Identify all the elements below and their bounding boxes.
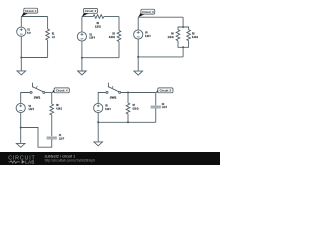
svg-text:5.10 V: 5.10 V (105, 107, 111, 111)
resistor R1 (46, 29, 50, 40)
label C2 value (162, 102, 167, 109)
node circuit2 junction (81, 57, 83, 59)
svg-text:3.19 Ω: 3.19 Ω (192, 35, 199, 39)
wire circuit4 left lower (20, 113, 22, 128)
resistor R6 (50, 104, 54, 115)
wire circuit2 right upper (118, 17, 120, 31)
wire circuit4 left top (21, 93, 30, 104)
svg-text:3.18 Ω: 3.18 Ω (109, 35, 116, 39)
voltage source V1 (17, 27, 26, 36)
node circuit3 top junction (182, 26, 184, 28)
wire circuit1 right upper (47, 17, 49, 30)
ground circuit3 (134, 57, 143, 75)
svg-text:1.10 F: 1.10 F (162, 105, 167, 109)
wire circuit1 left lower (20, 36, 22, 57)
wire circuit4 top right (45, 92, 52, 94)
wire circuit4 mid (51, 115, 53, 136)
svg-text:Circuit_4: Circuit_4 (56, 89, 68, 93)
wire circuit5 right lower (155, 108, 157, 122)
ground circuit5 (94, 122, 103, 146)
svg-text:Circuit_1: Circuit_1 (25, 9, 37, 13)
logo CircuitLab (8, 156, 35, 165)
resistor R3 (117, 31, 121, 42)
svg-text:http://circuitlab.com/c/7ab628: http://circuitlab.com/c/7ab628hdp9 (45, 159, 95, 163)
node circuit3 bottom junction (182, 46, 184, 48)
resistor R5 (187, 30, 191, 41)
svg-text:SW1: SW1 (34, 96, 41, 100)
capacitor C2 (151, 105, 161, 108)
ground circuit2 (78, 58, 87, 75)
ground circuit4 (16, 128, 25, 148)
svg-text:Circuit_2: Circuit_2 (85, 9, 97, 13)
wire circuit2 left lower (81, 41, 83, 58)
node circuit5 ground junction (97, 121, 99, 123)
wire circuit3 bottom bar (178, 41, 189, 48)
voltage source V2 (77, 32, 86, 41)
voltage source V5 (94, 103, 103, 112)
label C1 value (59, 133, 64, 140)
svg-text:V1: V1 (27, 28, 30, 32)
wire circuit4 below cap (21, 128, 52, 148)
wire circuit4 right upper (51, 93, 53, 105)
label R5 value (192, 32, 199, 39)
svg-text:2.18 Ω: 2.18 Ω (168, 35, 175, 39)
wire circuit1 bottom (21, 57, 47, 59)
svg-text:SW2: SW2 (110, 96, 117, 100)
label V4 value (29, 104, 35, 111)
switch SW2 (106, 83, 121, 94)
switch SW1 (30, 83, 45, 94)
wire circuit1 left upper (20, 17, 22, 28)
wire circuit2 right lower (118, 42, 120, 58)
footer bar (0, 152, 220, 165)
node circuit5 top junction (127, 92, 129, 94)
flag Circuit_5 (156, 88, 173, 93)
wire circuit3 right down (182, 47, 184, 57)
capacitor C1 (47, 136, 57, 139)
label R3 value (109, 32, 116, 39)
resistor R2 (93, 15, 104, 19)
wire circuit3 bottom (138, 56, 183, 58)
wire circuit5 bottom (98, 121, 156, 123)
wire circuit2 bottom (82, 57, 119, 59)
label R6 value (56, 103, 63, 110)
svg-text:4.18 Ω: 4.18 Ω (56, 106, 63, 110)
wire circuit2 top right (104, 16, 119, 18)
resistor R7 (126, 103, 130, 114)
svg-text:5.18 V: 5.18 V (89, 36, 95, 40)
voltage source V3 (134, 30, 143, 39)
svg-text:R2: R2 (97, 21, 100, 25)
svg-text:2.18 Ω: 2.18 Ω (95, 25, 102, 29)
wire circuit3 top (138, 16, 183, 18)
wire circuit5 top right (121, 92, 156, 94)
wire circuit1 top (21, 16, 47, 18)
wire circuit1 right lower (47, 40, 49, 58)
svg-text:LAB: LAB (25, 160, 34, 165)
svg-text:Circuit_5: Circuit_5 (160, 89, 172, 93)
label R7 value (133, 103, 140, 110)
label V3 value (145, 31, 151, 38)
svg-text:R1: R1 (52, 32, 55, 36)
flag Circuit_3 (138, 9, 155, 17)
ground circuit1 (17, 58, 26, 75)
svg-text:5 V: 5 V (27, 31, 31, 35)
wire circuit3 left upper (137, 17, 139, 30)
wire circuit5 right upper (155, 93, 157, 106)
wire circuit5 left top (98, 93, 106, 104)
wire circuit3 top bar (178, 27, 189, 30)
resistor R4 (176, 30, 180, 41)
flag Circuit_1 (21, 8, 37, 17)
node circuit1 junction (20, 57, 22, 59)
svg-text:1.18 F: 1.18 F (59, 136, 64, 140)
wire circuit3 left lower (137, 39, 139, 57)
wire circuit5 left lower (97, 113, 99, 123)
label R2 value (95, 21, 102, 28)
label V5 value (105, 104, 111, 111)
label V2 value (89, 32, 95, 39)
flag Circuit_4 (52, 88, 70, 93)
label V1 value (27, 28, 31, 35)
flag Circuit_2 (82, 8, 98, 16)
wire circuit2 left upper (81, 17, 83, 32)
node circuit4 junction (20, 127, 22, 129)
node circuit3 ground junction (137, 56, 139, 58)
wire circuit5 R7 upper (127, 93, 129, 104)
label R4 value (168, 32, 175, 39)
wire circuit2 top left (82, 16, 93, 18)
svg-text:6.18 Ω: 6.18 Ω (133, 106, 140, 110)
node circuit5 bottom junction (127, 121, 129, 123)
svg-text:Circuit_3: Circuit_3 (142, 10, 154, 14)
label R1 value (52, 32, 55, 39)
svg-text:5.10 V: 5.10 V (145, 34, 151, 38)
voltage source V4 (16, 103, 25, 112)
wire circuit3 right drop (182, 17, 184, 27)
svg-text:1.32 V: 1.32 V (29, 107, 35, 111)
wire circuit5 R7 lower (127, 114, 129, 122)
